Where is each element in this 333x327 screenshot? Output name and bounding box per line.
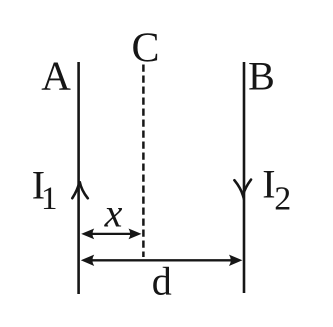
svg-text:A: A bbox=[41, 53, 71, 99]
svg-text:B: B bbox=[248, 54, 275, 99]
svg-text:C: C bbox=[131, 26, 159, 72]
dimension arrow d (double-headed between wire A and wire B) bbox=[81, 255, 243, 266]
current arrow I1 (up arrowhead on wire A) bbox=[72, 181, 88, 198]
svg-text:1: 1 bbox=[41, 181, 58, 217]
svg-text:x: x bbox=[104, 191, 123, 236]
dashed line C bbox=[142, 65, 145, 258]
label I1 bbox=[32, 163, 58, 218]
wire B bbox=[243, 62, 246, 293]
svg-text:d: d bbox=[152, 259, 172, 304]
current arrow I2 (down arrowhead on wire B) bbox=[234, 180, 251, 196]
wire A bbox=[77, 62, 80, 294]
dimension arrow x (double-headed between wire A and line C) bbox=[81, 229, 141, 240]
svg-text:2: 2 bbox=[274, 181, 291, 218]
label I2 bbox=[262, 162, 291, 218]
